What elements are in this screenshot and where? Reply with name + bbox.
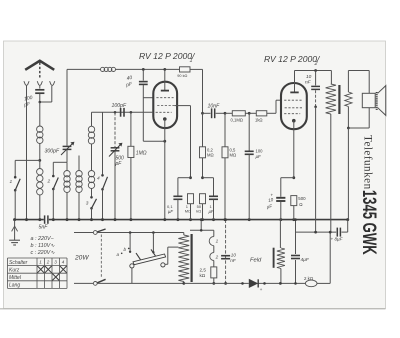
svg-text:Telefunken: Telefunken	[362, 135, 374, 190]
wire speaker bottom	[348, 108, 369, 128]
svg-text:1: 1	[190, 58, 193, 64]
wire tube1 cathode down	[164, 119, 166, 220]
capacitor 8 uF	[331, 220, 348, 242]
resistor 0.2 MOhm	[200, 113, 214, 177]
wire bottom rail right end	[317, 232, 330, 283]
svg-text:90 kΩ: 90 kΩ	[177, 74, 187, 78]
svg-text:4: 4	[62, 260, 65, 265]
svg-text:1345 GWK: 1345 GWK	[358, 190, 379, 255]
dial lamp 1	[209, 230, 218, 245]
svg-text:3: 3	[86, 201, 89, 207]
wire top rail to 90k	[116, 68, 180, 71]
transformer output secondary	[345, 71, 352, 130]
label 1345 GWK	[358, 190, 379, 255]
voltage selector	[117, 247, 166, 268]
transformer power core	[191, 234, 193, 282]
capacitor 10 uF cathode	[266, 178, 294, 220]
svg-text:2: 2	[47, 179, 51, 185]
inductor grid coil	[88, 126, 94, 170]
svg-text:10: 10	[306, 74, 312, 80]
resistor 50 kOhm	[196, 194, 205, 220]
wire top rail left	[67, 68, 101, 70]
wire secondary to bus end	[347, 128, 349, 220]
wire selector pin left down	[131, 268, 133, 283]
svg-text:b: b	[124, 247, 127, 252]
wire grid rail	[92, 111, 154, 126]
capacitor 500pF variable	[109, 112, 124, 219]
switch 3	[86, 196, 97, 220]
svg-text:4µF: 4µF	[301, 257, 310, 263]
svg-text:20W: 20W	[74, 255, 89, 262]
wire top rail corner to HT node	[190, 69, 203, 113]
svg-text:RV 12 P 2000/: RV 12 P 2000/	[264, 54, 321, 64]
switch 1	[10, 160, 21, 219]
capacitor 40pF	[125, 69, 148, 141]
svg-text:+ 8µF: + 8µF	[331, 237, 344, 242]
inductor antenna coil L1	[37, 102, 43, 160]
wire HT rail 10nF	[201, 112, 210, 115]
resistor 1 MOhm screen	[185, 194, 194, 220]
capacitor 10nF tone	[305, 71, 320, 233]
tube U2 RV12P2000/2	[281, 71, 307, 130]
svg-text:RV 12 P 2000/: RV 12 P 2000/	[139, 51, 196, 61]
svg-text:1: 1	[39, 260, 42, 265]
svg-text:1: 1	[10, 179, 13, 185]
ground bus	[15, 218, 350, 221]
svg-text:2: 2	[314, 61, 318, 67]
node antenna coil tap	[15, 159, 41, 162]
label 20W	[74, 255, 89, 262]
capacitor 300pF variable	[45, 69, 74, 162]
svg-text:µF: µF	[256, 154, 262, 159]
svg-text:pF: pF	[115, 161, 123, 167]
svg-text:1: 1	[216, 239, 219, 244]
inductor band coil 2	[76, 156, 82, 220]
svg-text:1kΩ: 1kΩ	[255, 118, 263, 123]
wire selector feed	[129, 231, 184, 253]
resistor 1 kOhm grid stopper	[249, 100, 281, 122]
capacitor 1 uF	[209, 178, 219, 220]
inductor band coil 1	[64, 162, 70, 219]
wire antenna left drop	[26, 86, 28, 220]
svg-text:4: 4	[97, 176, 100, 182]
mains switch link	[100, 235, 102, 279]
svg-text:µF: µF	[209, 209, 214, 214]
switch 2	[47, 162, 59, 219]
svg-text:Schalter: Schalter	[9, 260, 28, 266]
svg-text:Mittel: Mittel	[9, 275, 22, 281]
svg-text:1MΩ: 1MΩ	[136, 151, 147, 157]
capacitor 100 uF	[245, 113, 263, 219]
wire tube2 anode rail	[295, 69, 332, 84]
label tube U2	[264, 54, 321, 67]
mains line bottom	[74, 279, 184, 285]
label Telefunken	[362, 135, 374, 190]
capacitor 0.1 uF	[167, 178, 182, 220]
band switch table	[8, 258, 68, 289]
svg-text:a: a	[117, 252, 120, 257]
tube U1 RV12P2000/1	[153, 69, 177, 128]
wire tube1 anode-grid exit right	[175, 106, 191, 178]
svg-text:10: 10	[231, 253, 237, 258]
svg-text:100: 100	[256, 149, 264, 154]
node screen divider	[201, 176, 213, 179]
svg-text:2: 2	[46, 260, 50, 265]
capacitor 10nF mains	[221, 218, 237, 285]
svg-text:2: 2	[215, 254, 219, 259]
mains line top	[74, 229, 130, 234]
capacitor 100pF grid	[112, 103, 128, 117]
svg-text:Kurz: Kurz	[9, 267, 20, 273]
resistor 500 Ohm cathode	[291, 196, 306, 220]
svg-text:2,5: 2,5	[200, 268, 207, 273]
svg-text:µF: µF	[168, 209, 173, 214]
svg-text:MΩ: MΩ	[207, 153, 214, 158]
dial lamp 2	[210, 246, 219, 261]
inductor band coil 3	[88, 171, 94, 197]
svg-text:MΩ: MΩ	[185, 209, 191, 214]
svg-text:kΩ: kΩ	[196, 209, 201, 214]
antenna terminal sockets	[24, 81, 55, 85]
resistor 0.1 MOhm	[225, 111, 251, 123]
capacitor 5nF bus	[39, 215, 49, 230]
wire bottom rail	[184, 282, 306, 285]
field coil Feld	[250, 220, 285, 285]
svg-text:100pF: 100pF	[112, 103, 128, 109]
antenna	[25, 61, 54, 78]
svg-text:300pF: 300pF	[45, 149, 61, 155]
capacitor 4 uF	[291, 218, 310, 285]
scanned paper sheet	[4, 41, 386, 309]
inductor antenna coil L2	[37, 160, 43, 219]
transformer output core	[338, 85, 340, 114]
transformer output primary	[326, 84, 336, 232]
svg-text:10nF: 10nF	[208, 104, 221, 110]
svg-text:c : 220V∿: c : 220V∿	[31, 250, 56, 256]
svg-text:Lang: Lang	[9, 283, 20, 289]
wire speaker top	[348, 71, 369, 94]
rectifier diode	[241, 279, 263, 292]
svg-text:5nF: 5nF	[39, 225, 49, 231]
capacitor 100pF antenna	[23, 86, 45, 109]
wire selector pin right to heater tap	[165, 247, 179, 264]
svg-text:kΩ: kΩ	[200, 273, 206, 278]
ground	[9, 218, 20, 245]
resistor 1 MOhm AVC	[128, 112, 147, 219]
svg-text:500: 500	[298, 196, 306, 201]
label tube U1	[139, 51, 196, 64]
wire B+ line	[296, 231, 337, 234]
resistor 2.5 kOhm	[200, 261, 217, 285]
wire 40pF to cathode node	[143, 98, 166, 143]
resistor 90 kOhm	[177, 67, 190, 78]
wire tube2 cathode down	[292, 121, 295, 179]
resistor 0.5 MOhm	[222, 113, 236, 219]
wire varcap tap	[53, 161, 67, 163]
wire antenna cap jog to right socket	[39, 86, 52, 103]
wire dial lamp feed	[190, 218, 214, 231]
switch 4	[97, 112, 108, 219]
svg-text:a : 220V−: a : 220V−	[31, 236, 54, 242]
label voltages	[31, 236, 56, 256]
transformer power primary	[178, 233, 189, 285]
resistor 2 kOhm	[304, 276, 317, 287]
inductor RF choke	[101, 67, 116, 71]
svg-text:Feld: Feld	[250, 257, 262, 263]
svg-text:3: 3	[54, 260, 57, 265]
speaker	[362, 86, 386, 116]
node tube1 screen feed	[178, 176, 192, 179]
svg-text:0,1MΩ: 0,1MΩ	[231, 118, 243, 123]
capacitor 10nF coupling	[208, 104, 227, 119]
svg-text:MΩ: MΩ	[230, 153, 237, 158]
svg-text:+: +	[260, 287, 263, 292]
svg-text:b : 110V∿: b : 110V∿	[31, 243, 56, 249]
